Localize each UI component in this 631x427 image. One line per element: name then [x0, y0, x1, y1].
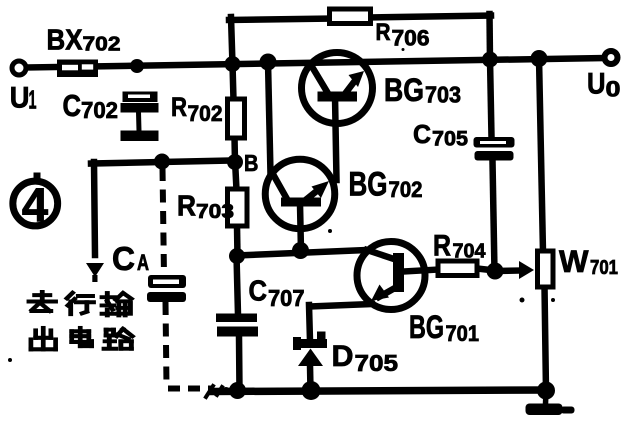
svg-text:B: B — [244, 150, 258, 176]
svg-text:0: 0 — [606, 77, 621, 102]
svg-text:702: 702 — [81, 97, 118, 123]
svg-text:BG: BG — [384, 72, 424, 108]
svg-text:706: 706 — [392, 26, 430, 51]
svg-text:702: 702 — [389, 177, 423, 202]
svg-text:4: 4 — [22, 178, 48, 231]
svg-text:702: 702 — [188, 101, 223, 126]
svg-text:U: U — [587, 68, 606, 101]
svg-text:C: C — [413, 119, 431, 149]
svg-text:701: 701 — [446, 321, 480, 346]
svg-text:705: 705 — [355, 350, 399, 376]
svg-text:703: 703 — [196, 201, 234, 223]
svg-text:703: 703 — [425, 82, 461, 108]
svg-text:BG: BG — [349, 166, 388, 204]
svg-text:BG: BG — [409, 309, 444, 345]
svg-text:A: A — [137, 250, 149, 275]
svg-text:C: C — [112, 240, 135, 277]
svg-text:R: R — [376, 19, 391, 46]
svg-text:702: 702 — [83, 33, 121, 56]
svg-text:C: C — [249, 276, 268, 308]
svg-text:D: D — [332, 340, 354, 373]
svg-text:U: U — [10, 81, 30, 114]
svg-text:R: R — [171, 92, 187, 122]
svg-text:R: R — [177, 191, 196, 223]
svg-text:C: C — [63, 89, 82, 123]
svg-text:707: 707 — [268, 285, 305, 311]
svg-text:704: 704 — [453, 241, 487, 263]
svg-text:R: R — [433, 230, 451, 263]
svg-text:701: 701 — [590, 257, 618, 279]
svg-text:705: 705 — [432, 128, 468, 151]
svg-text:BX: BX — [47, 25, 84, 57]
svg-text:1: 1 — [29, 85, 37, 115]
svg-text:W: W — [559, 243, 589, 279]
